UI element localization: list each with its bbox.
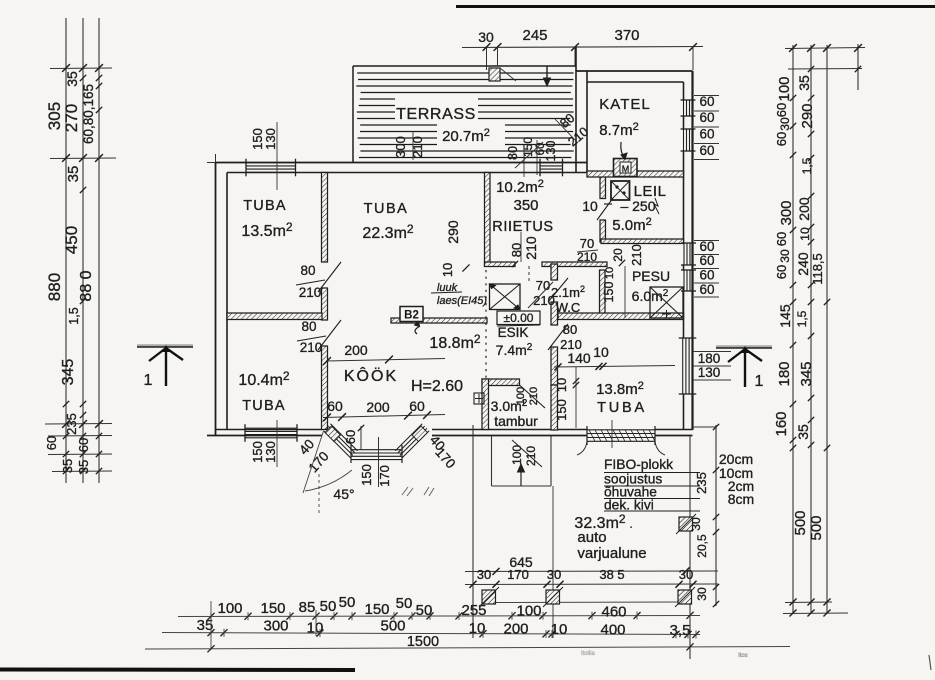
svg-text:300: 300 xyxy=(393,136,408,158)
svg-text:140: 140 xyxy=(567,350,591,366)
svg-text:350: 350 xyxy=(513,197,538,214)
svg-text:10: 10 xyxy=(593,344,609,360)
svg-text:60: 60 xyxy=(327,398,343,414)
svg-text:145: 145 xyxy=(777,304,793,328)
svg-text:TUBA: TUBA xyxy=(243,198,286,214)
svg-text:60: 60 xyxy=(774,132,789,146)
svg-text:B2: B2 xyxy=(404,310,419,322)
svg-text:245: 245 xyxy=(522,27,547,44)
svg-text:KÔÖK: KÔÖK xyxy=(344,366,398,385)
svg-text:460: 460 xyxy=(601,604,626,621)
svg-text:118,5: 118,5 xyxy=(810,253,825,285)
svg-text:30: 30 xyxy=(695,587,709,601)
svg-text:ESIK: ESIK xyxy=(498,325,529,340)
svg-text:10.2m2: 10.2m2 xyxy=(496,178,544,196)
svg-text:30: 30 xyxy=(547,567,561,582)
svg-text:50: 50 xyxy=(396,595,413,612)
svg-text:100: 100 xyxy=(515,387,527,405)
svg-text:255: 255 xyxy=(461,602,486,619)
svg-text:210: 210 xyxy=(299,285,322,300)
svg-text:13.8m2: 13.8m2 xyxy=(596,380,644,398)
svg-text:60: 60 xyxy=(699,282,714,297)
svg-text:88 0: 88 0 xyxy=(78,270,95,301)
svg-text:200: 200 xyxy=(366,399,390,415)
svg-text:1,5: 1,5 xyxy=(67,307,81,324)
svg-text:370: 370 xyxy=(614,27,639,44)
svg-text:170: 170 xyxy=(377,465,392,487)
svg-text:varjualune: varjualune xyxy=(577,545,646,562)
svg-text:W.C: W.C xyxy=(556,300,581,315)
svg-text:60: 60 xyxy=(699,94,714,109)
svg-text:10: 10 xyxy=(798,227,812,241)
svg-text:.: . xyxy=(629,515,633,532)
svg-text:210: 210 xyxy=(410,136,425,158)
svg-text:400: 400 xyxy=(600,622,625,639)
svg-text:dek. kivi: dek. kivi xyxy=(604,498,654,513)
svg-text:130: 130 xyxy=(544,141,558,162)
svg-text:60: 60 xyxy=(699,127,714,142)
svg-text:35: 35 xyxy=(76,460,91,474)
svg-text:13.5m2: 13.5m2 xyxy=(241,220,292,240)
svg-text:itollia: itollia xyxy=(581,651,595,657)
svg-text:70: 70 xyxy=(580,236,594,251)
svg-text:38 5: 38 5 xyxy=(599,567,624,582)
svg-text:80: 80 xyxy=(301,319,316,334)
svg-text:20,5: 20,5 xyxy=(695,534,709,558)
svg-text:3,5: 3,5 xyxy=(670,622,691,639)
svg-text:20: 20 xyxy=(611,248,625,262)
svg-text:240: 240 xyxy=(795,252,811,276)
svg-text:500: 500 xyxy=(792,510,809,535)
svg-text:KATEL: KATEL xyxy=(599,96,650,113)
svg-text:60: 60 xyxy=(699,110,714,125)
svg-text:130: 130 xyxy=(263,128,278,150)
svg-text:210: 210 xyxy=(560,337,582,352)
svg-text:130: 130 xyxy=(263,441,278,463)
svg-text:35: 35 xyxy=(796,75,812,91)
svg-text:18.8m2: 18.8m2 xyxy=(429,332,480,352)
svg-text:100: 100 xyxy=(776,76,793,101)
svg-text:150: 150 xyxy=(364,601,389,618)
svg-text:160: 160 xyxy=(773,411,790,436)
svg-text:10: 10 xyxy=(604,267,616,279)
svg-text:210: 210 xyxy=(524,446,538,466)
svg-text:80: 80 xyxy=(300,263,315,278)
svg-text:FIBO-plokk: FIBO-plokk xyxy=(604,457,673,472)
svg-text:10: 10 xyxy=(554,378,569,392)
svg-text:290: 290 xyxy=(799,103,816,128)
svg-text:200: 200 xyxy=(344,342,368,358)
svg-text:10: 10 xyxy=(440,263,455,277)
svg-text:M: M xyxy=(622,164,630,174)
svg-text:300: 300 xyxy=(263,618,288,635)
svg-text:60: 60 xyxy=(699,143,714,158)
svg-text:60: 60 xyxy=(76,438,91,452)
svg-text:150: 150 xyxy=(359,464,374,486)
svg-text:10: 10 xyxy=(551,621,568,638)
svg-text:100: 100 xyxy=(217,600,242,617)
svg-text:TERRASS: TERRASS xyxy=(396,106,476,123)
svg-text:210: 210 xyxy=(533,293,555,308)
svg-text:60: 60 xyxy=(699,239,714,254)
svg-text:8cm: 8cm xyxy=(728,491,754,507)
svg-text:10: 10 xyxy=(582,198,598,214)
svg-text:345: 345 xyxy=(798,361,815,386)
svg-text:270: 270 xyxy=(62,104,81,132)
svg-text:500: 500 xyxy=(380,618,405,635)
svg-text:170: 170 xyxy=(507,567,529,582)
svg-text:1: 1 xyxy=(755,373,764,390)
svg-text:auto: auto xyxy=(577,529,606,546)
svg-text:60: 60 xyxy=(774,103,789,117)
svg-text:60: 60 xyxy=(774,232,789,246)
svg-text:210: 210 xyxy=(523,236,539,260)
svg-text:35: 35 xyxy=(65,166,82,183)
svg-text:80: 80 xyxy=(509,243,524,257)
svg-text:50: 50 xyxy=(339,594,356,611)
svg-text:150: 150 xyxy=(602,282,616,303)
svg-text:10: 10 xyxy=(307,620,324,637)
svg-text:1: 1 xyxy=(144,372,153,389)
svg-text:150: 150 xyxy=(554,399,569,421)
svg-text:85: 85 xyxy=(299,599,316,616)
svg-text:H=2.60: H=2.60 xyxy=(411,378,463,395)
svg-text:TUBA: TUBA xyxy=(364,201,409,217)
svg-text:laes(EI45): laes(EI45) xyxy=(437,295,487,307)
svg-text:1,5: 1,5 xyxy=(795,310,809,327)
svg-text:30: 30 xyxy=(478,29,494,45)
svg-text:60: 60 xyxy=(699,253,714,268)
svg-text:ltos: ltos xyxy=(738,653,747,659)
svg-text:TUBA: TUBA xyxy=(242,398,285,414)
svg-text:150: 150 xyxy=(521,137,535,157)
svg-text:1500: 1500 xyxy=(407,634,439,650)
svg-text:60: 60 xyxy=(699,268,714,283)
svg-text:500: 500 xyxy=(808,515,825,540)
svg-text:60: 60 xyxy=(343,430,358,444)
svg-text:235: 235 xyxy=(64,413,79,435)
svg-text:450: 450 xyxy=(62,226,81,254)
svg-text:2.1m2: 2.1m2 xyxy=(551,284,585,300)
svg-text:35: 35 xyxy=(795,424,811,440)
svg-text:345: 345 xyxy=(60,359,77,386)
svg-text:30: 30 xyxy=(679,567,693,582)
svg-text:10.4m2: 10.4m2 xyxy=(238,369,289,389)
svg-text:TUBA: TUBA xyxy=(597,400,647,416)
svg-text:70: 70 xyxy=(536,278,550,293)
svg-text:45°: 45° xyxy=(333,486,354,502)
svg-text:20.7m2: 20.7m2 xyxy=(442,127,490,145)
svg-text:300: 300 xyxy=(778,200,795,225)
svg-text:60: 60 xyxy=(774,265,789,279)
svg-text:880: 880 xyxy=(45,273,64,301)
svg-text:60,80,165: 60,80,165 xyxy=(81,84,96,144)
svg-text:290: 290 xyxy=(445,220,461,244)
svg-text:30: 30 xyxy=(778,249,792,263)
svg-text:30: 30 xyxy=(477,567,491,582)
svg-text:235: 235 xyxy=(694,472,709,494)
svg-text:180: 180 xyxy=(698,351,721,366)
svg-text:210: 210 xyxy=(528,387,540,405)
svg-text:60: 60 xyxy=(44,436,59,450)
svg-text:RIIETUS: RIIETUS xyxy=(492,219,553,235)
svg-text:200: 200 xyxy=(796,197,812,221)
svg-text:80: 80 xyxy=(506,146,520,160)
svg-text:±0.00: ±0.00 xyxy=(504,311,534,325)
svg-text:180: 180 xyxy=(776,361,793,386)
svg-text:22.3m2: 22.3m2 xyxy=(362,222,413,242)
svg-text:35: 35 xyxy=(64,71,80,87)
svg-text:PESU: PESU xyxy=(632,268,670,284)
svg-text:210: 210 xyxy=(300,340,323,355)
svg-text:130: 130 xyxy=(698,365,721,380)
svg-text:100: 100 xyxy=(510,445,524,465)
svg-text:80: 80 xyxy=(563,322,577,337)
svg-text:210: 210 xyxy=(629,244,644,266)
svg-text:30: 30 xyxy=(778,117,792,131)
svg-text:1,5: 1,5 xyxy=(800,157,814,174)
svg-text:200: 200 xyxy=(503,621,528,638)
svg-text:tambur: tambur xyxy=(494,413,538,429)
svg-text:35: 35 xyxy=(60,459,75,473)
svg-text:100: 100 xyxy=(516,603,541,620)
svg-text:150: 150 xyxy=(260,600,285,617)
